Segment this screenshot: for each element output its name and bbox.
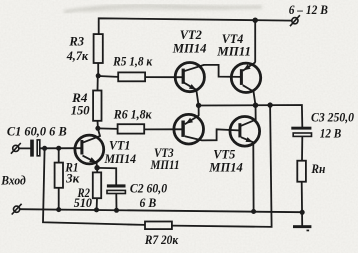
resistor R4 — [93, 91, 101, 121]
wire R3 bottom to node A — [97, 63, 99, 76]
wire VT5 collector up — [255, 105, 257, 120]
resistor R3 — [94, 34, 103, 63]
wire VT4 emitter down — [254, 92, 256, 106]
scan smudge top edge — [64, 6, 262, 12]
terminal power 6-12V — [290, 15, 300, 26]
node C2 bottom on ground rail — [114, 208, 119, 213]
transistor VT1 — [75, 129, 104, 168]
wire node A to R5 — [98, 75, 118, 78]
wire R1 bottom — [58, 188, 60, 210]
node B R4/R6/VT1 collector — [95, 126, 100, 131]
wire input terminal to C1 — [19, 147, 30, 149]
capacitor C1 — [30, 140, 40, 157]
node feedback tap on VT1 base — [42, 146, 47, 151]
transistor VT4 — [231, 62, 260, 92]
wire ground rail — [20, 209, 303, 212]
terminal input upper — [11, 143, 21, 154]
ground — [293, 225, 311, 231]
transistor VT5 — [230, 117, 260, 147]
wire R2 bottom — [96, 198, 98, 210]
wire R4 bottom to node B — [97, 121, 99, 129]
node VT1 emitter — [94, 165, 99, 170]
wire C3 to Rn — [301, 138, 303, 161]
node VT5 emitter on ground rail — [251, 209, 256, 214]
node output rail mid — [253, 103, 258, 108]
resistor R5 — [118, 72, 145, 81]
wire VT2 collector to VT4 base — [204, 65, 240, 77]
resistor R7 — [145, 222, 172, 230]
node A R3/R4/R5 — [96, 73, 101, 78]
wire node B to R6 — [98, 127, 118, 130]
capacitor C2 — [107, 184, 126, 193]
wire VT3 emitter to VT5 base — [202, 129, 238, 140]
terminal input lower — [12, 204, 22, 215]
wire VT1 emitter to C2 — [97, 168, 116, 185]
transistor VT2 — [175, 63, 204, 92]
wire R5 to VT2 base — [145, 76, 181, 78]
node R1 top on VT1 base — [56, 146, 61, 151]
wire VT5 emitter down — [252, 142, 254, 211]
wire R2 top stub — [96, 168, 98, 173]
transistor VT3 — [174, 114, 204, 144]
wire C2 bottom — [115, 195, 117, 211]
wire R1 top — [58, 148, 60, 162]
wire C1 to VT1 base — [41, 147, 81, 149]
wire VT2 emitter down — [196, 90, 198, 106]
capacitor C3 — [291, 127, 311, 137]
wire Rn bottom to ground — [301, 182, 304, 226]
wire R6 to VT3 base — [144, 128, 181, 130]
resistor R1 — [55, 163, 63, 188]
wire feedback right vertical — [172, 105, 272, 227]
wire power rail top — [99, 18, 292, 34]
node power rail / VT4 collector — [253, 18, 258, 23]
wire feedback left: base tap down and right to R7 — [43, 148, 145, 225]
resistor R6 — [118, 124, 145, 133]
node output rail feedback tap — [267, 102, 272, 107]
resistor R2 — [93, 172, 101, 198]
node R2 bottom on ground rail — [94, 207, 99, 212]
node ground rail right end — [300, 210, 305, 215]
paper grain overlay — [0, 0, 1, 1]
wire VT4 collector up — [254, 20, 256, 62]
resistor Rn — [297, 161, 306, 182]
wire VT3 collector up — [198, 105, 200, 115]
node output rail left — [196, 103, 201, 108]
node R1 bottom on ground rail — [56, 207, 61, 212]
wire output rail to C3 — [199, 105, 303, 127]
wire node A to R4 top — [97, 76, 99, 91]
